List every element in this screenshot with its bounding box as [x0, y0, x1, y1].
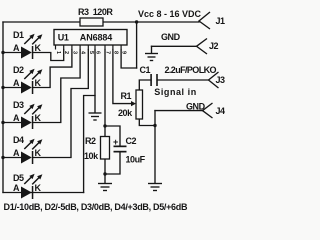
- resistor R2 10k: [101, 137, 110, 160]
- svg-text:3: 3: [71, 51, 77, 54]
- wire D5 cathode riser to pin6: [84, 96, 95, 193]
- wire Vcc vertical drop: [136, 22, 138, 68]
- wire R1 top to C1 left plate: [139, 80, 151, 90]
- wire pin8 to R1 wiper: [113, 50, 133, 104]
- wire D2 anode: [3, 87, 21, 89]
- LED D1: [1, 30, 42, 59]
- svg-text:C2: C2: [126, 136, 137, 146]
- wire D3 cathode to pin4: [33, 50, 80, 123]
- svg-text:D1: D1: [13, 30, 24, 40]
- ground (J2): [145, 54, 158, 61]
- svg-text:D1/-10dB, D2/-5dB, D3/0dB, D4/: D1/-10dB, D2/-5dB, D3/0dB, D4/+3dB, D5/+…: [4, 202, 188, 212]
- LED D2: [1, 65, 42, 94]
- resistor R3: [80, 18, 103, 26]
- svg-text:Vcc 8 - 16 VDC: Vcc 8 - 16 VDC: [138, 9, 202, 19]
- connector J4: [186, 102, 225, 119]
- svg-text:A: A: [13, 43, 20, 53]
- svg-text:D4: D4: [13, 135, 24, 145]
- wire pin6 to mid ground: [94, 50, 96, 113]
- LED D4: [1, 135, 42, 164]
- node R2 bottom junction: [103, 172, 106, 175]
- U1 pin numbers 1-9: [55, 51, 127, 55]
- svg-text:2.2uF/POLKO: 2.2uF/POLKO: [165, 65, 217, 75]
- wire C2 bottom to R2 bottom node: [105, 153, 120, 175]
- svg-text:10uF: 10uF: [126, 154, 146, 164]
- svg-text:J2: J2: [209, 41, 219, 51]
- wire left anode bus: [2, 22, 4, 193]
- wire pin9 to Vcc branch: [121, 50, 137, 69]
- wire pin7 node to C2 top: [105, 126, 120, 146]
- wire J4 GND lead: [155, 110, 203, 112]
- capacitor C1: [140, 65, 217, 86]
- connector J3: [154, 72, 225, 97]
- ground (below R2): [98, 184, 112, 191]
- wire D1 anode: [3, 52, 21, 54]
- connector J1: [138, 9, 225, 29]
- ground (right, below J4 node): [148, 184, 162, 191]
- svg-text:K: K: [35, 113, 42, 123]
- svg-text:R1: R1: [121, 91, 132, 101]
- wire bottom rail: [3, 192, 84, 194]
- svg-text:D3: D3: [13, 100, 24, 110]
- wire D4 cathode to pin5: [33, 50, 88, 158]
- svg-text:5: 5: [88, 51, 94, 54]
- svg-text:K: K: [35, 78, 42, 88]
- wire D2 cathode to pin3: [33, 50, 72, 88]
- wire R1 bottom to ground node: [139, 119, 155, 126]
- connector J2: [161, 32, 219, 54]
- svg-text:Signal in: Signal in: [154, 87, 196, 97]
- svg-text:2: 2: [63, 51, 69, 54]
- svg-text:GND: GND: [186, 102, 206, 112]
- svg-text:C1: C1: [140, 65, 151, 75]
- potentiometer R1 20k: [136, 90, 143, 119]
- node R1 bottom ground junction: [153, 124, 156, 127]
- LED D5: [13, 173, 42, 199]
- op-amp U1 AN6884 IC body: [54, 30, 127, 46]
- svg-text:K: K: [35, 183, 42, 193]
- svg-text:D5: D5: [13, 173, 24, 183]
- svg-text:A: A: [13, 148, 20, 158]
- wire J2 GND lead: [152, 45, 197, 47]
- wire J2 ground stem: [151, 46, 153, 53]
- svg-text:20k: 20k: [118, 108, 133, 118]
- capacitor C2 10uF: [113, 136, 146, 164]
- LED D3: [1, 100, 42, 129]
- svg-text:10k: 10k: [84, 151, 99, 161]
- svg-text:J3: J3: [216, 75, 226, 85]
- wire D1 cathode to pin2: [33, 50, 64, 61]
- svg-text:A: A: [13, 113, 20, 123]
- wire C1 right plate to J3: [158, 79, 209, 81]
- svg-text:R3 120R: R3 120R: [78, 7, 113, 17]
- wire top rail right of R3 to J1: [103, 21, 199, 23]
- wire J4 gnd vertical: [154, 111, 156, 183]
- wire pin7 to R2: [104, 50, 106, 137]
- wire top rail left of R3: [3, 21, 80, 23]
- wire R2 bottom to ground: [104, 159, 106, 183]
- node Vcc junction: [135, 20, 138, 23]
- svg-text:6: 6: [95, 51, 101, 54]
- svg-text:A: A: [13, 78, 20, 88]
- svg-text:1: 1: [55, 51, 61, 54]
- svg-text:K: K: [35, 43, 42, 53]
- svg-text:U1: U1: [58, 32, 69, 42]
- U1 pin stubs: [56, 45, 122, 50]
- svg-text:K: K: [35, 148, 42, 158]
- svg-text:R2: R2: [85, 136, 96, 146]
- svg-text:+: +: [113, 137, 118, 147]
- svg-text:J1: J1: [216, 16, 226, 26]
- ground (pin6 mid circuit): [89, 113, 102, 120]
- svg-text:D2: D2: [13, 65, 24, 75]
- wire D4 anode: [3, 157, 21, 159]
- svg-text:A: A: [13, 183, 20, 193]
- svg-text:7: 7: [105, 51, 111, 54]
- node R2 top junction: [103, 124, 106, 127]
- svg-text:J4: J4: [216, 106, 226, 116]
- svg-text:AN6884: AN6884: [80, 32, 113, 42]
- svg-text:9: 9: [121, 51, 127, 54]
- svg-text:8: 8: [112, 51, 118, 54]
- wire D3 anode: [3, 122, 21, 124]
- svg-text:GND: GND: [161, 32, 181, 42]
